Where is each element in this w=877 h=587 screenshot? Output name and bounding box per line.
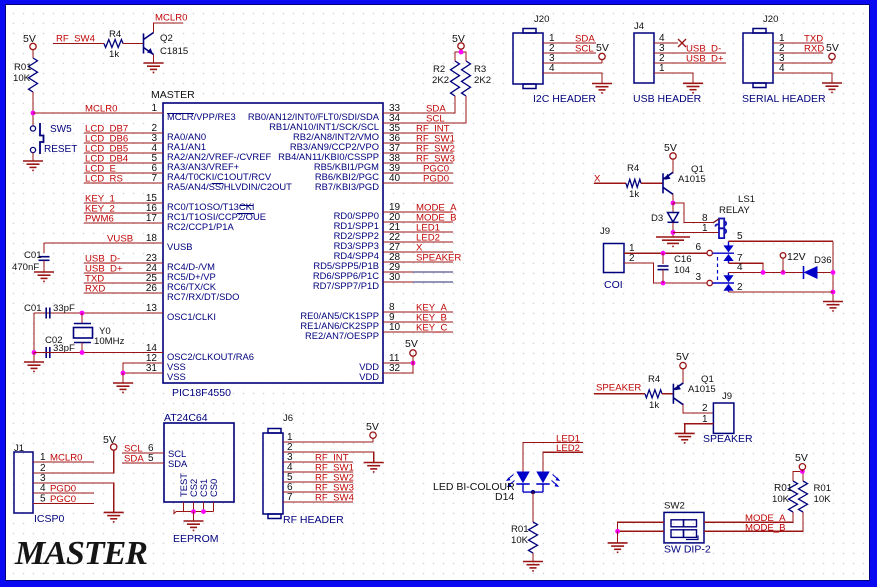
svg-text:MCLR0: MCLR0 [85, 104, 118, 115]
ground RF header [364, 463, 384, 472]
resistor R01 10K (MODE_B) [799, 481, 808, 512]
wire R4 to Q1 base [641, 182, 663, 184]
wire net RF_SW2 (J6 pin5) [283, 481, 353, 483]
svg-text:J1: J1 [14, 443, 24, 454]
pin 30 lead [413, 281, 453, 283]
wire net RXD [84, 292, 163, 294]
wire net PWM6 [84, 222, 163, 224]
5V power port (speaker) [680, 362, 686, 368]
svg-text:D3: D3 [651, 213, 663, 224]
wire EEPROM TEST stub [183, 502, 185, 512]
switch SW2 paddle 2 [671, 530, 697, 538]
wire net MODE_B [383, 221, 453, 223]
wire contact 2 to rail [729, 291, 834, 293]
svg-text:EEPROM: EEPROM [173, 533, 219, 545]
svg-text:30: 30 [389, 272, 401, 283]
wire net SCL to R3 [383, 96, 466, 123]
wire 5V to R01 [32, 50, 34, 58]
svg-text:RF_SW4: RF_SW4 [56, 34, 96, 45]
svg-text:SPEAKER: SPEAKER [596, 383, 641, 394]
wire J1 pin1 MCLR0 [33, 461, 94, 463]
wire 5V stem (MODE) [801, 470, 803, 472]
wire Q2 emitter to ground [153, 55, 155, 64]
svg-text:J20: J20 [763, 14, 778, 25]
svg-text:RA5/AN4/SS/HLVDIN/C2OUT: RA5/AN4/SS/HLVDIN/C2OUT [167, 181, 292, 192]
junction OSC1/crystal [80, 311, 85, 316]
junction rail/2 [831, 290, 836, 295]
svg-text:7: 7 [151, 173, 157, 184]
ground SW5 [23, 161, 43, 170]
svg-text:2K2: 2K2 [474, 75, 491, 86]
wire net KEY_C [383, 331, 453, 333]
wire net LCD_E [84, 172, 163, 174]
junction rail/4 [831, 270, 836, 275]
5V power port (MODE) [799, 464, 805, 470]
wire net RF_INT [383, 132, 453, 134]
svg-text:2: 2 [737, 282, 743, 293]
switch SW2 paddle 1 [671, 520, 697, 527]
wire net LED2 [383, 241, 453, 243]
ground EEPROM [184, 521, 204, 530]
wire D3 to ground node [672, 222, 674, 237]
wire net RF_SW1 [383, 142, 453, 144]
svg-text:104: 104 [674, 265, 691, 276]
svg-text:D36: D36 [814, 255, 832, 266]
svg-text:1: 1 [702, 223, 708, 234]
wire MCLR0 node to pin 1 [33, 112, 163, 114]
wire serial pin4 to ground [773, 73, 832, 83]
led D14 emission arrows right [552, 475, 559, 486]
svg-text:2: 2 [702, 403, 708, 414]
wire 12V stem [782, 258, 784, 272]
resistor R01 10K (pull-up) [29, 58, 38, 92]
wire net LCD_DB5 [84, 152, 163, 154]
resistor R4 1k (Q2 base) [104, 40, 123, 48]
svg-text:MASTER: MASTER [151, 89, 195, 101]
connector J1 ICSP0 body [14, 452, 33, 513]
wire C16 top lead [662, 253, 664, 264]
svg-text:5V: 5V [366, 421, 379, 433]
svg-text:1k: 1k [109, 49, 119, 60]
svg-text:5: 5 [40, 494, 46, 505]
resistor R01 10K (MODE_A) [789, 481, 798, 512]
junction SW2 ground [615, 529, 620, 534]
relay contact arm 3-to-2 [728, 291, 730, 292]
junction VDD [411, 361, 416, 366]
wire EEPROM CS2 stub [193, 502, 195, 512]
svg-text:1: 1 [702, 414, 708, 425]
svg-text:33pF: 33pF [53, 303, 75, 314]
wire J20 pin3 to 5V [543, 62, 602, 64]
wire VDD pin32 [383, 356, 413, 373]
wire net MODE_B [704, 512, 803, 531]
wire net VUSB [44, 242, 163, 244]
svg-text:1: 1 [659, 63, 665, 74]
svg-text:1: 1 [40, 452, 46, 463]
svg-text:SPEAKER: SPEAKER [703, 433, 753, 445]
ic AT24C64 EEPROM body [164, 423, 234, 502]
svg-text:PGD0: PGD0 [423, 174, 449, 185]
svg-text:RXD: RXD [804, 44, 824, 55]
wire J6 pin2 to ground [283, 452, 374, 463]
junction MCLR0 node [31, 111, 36, 116]
pin 29 lead [413, 271, 453, 273]
ground relay driver [656, 237, 690, 246]
wire J20 pin2 SCL [543, 52, 596, 54]
5V power port (RF header) [370, 432, 376, 438]
svg-text:17: 17 [146, 213, 158, 224]
svg-text:KEY_C: KEY_C [416, 323, 448, 334]
svg-text:RF HEADER: RF HEADER [283, 514, 344, 526]
svg-text:SDA: SDA [168, 458, 188, 469]
wire R01 to ground [532, 553, 534, 562]
capacitor C01 470nF [39, 257, 50, 261]
wire RF_SW4 to R4 [53, 43, 104, 45]
svg-text:R01: R01 [511, 524, 529, 535]
wire J1 pin4 PGD0 [33, 492, 94, 494]
wire J9 pin2 to contact 3 [624, 263, 707, 283]
junction EEPROM gnd 1 [191, 509, 196, 514]
wire VSS pin12 [123, 363, 163, 373]
ground Q2 emitter [144, 63, 164, 72]
wire X to R4 [594, 182, 626, 184]
wire J4 pin4 [654, 42, 678, 44]
relay contact arm 6-to-7 [728, 261, 730, 263]
wire D14 cathodes join [523, 484, 543, 492]
5V power port (pull-ups) [458, 43, 464, 49]
5V power port (Q1 relay) [670, 153, 676, 159]
svg-text:COI: COI [604, 279, 623, 291]
svg-text:USB HEADER: USB HEADER [633, 93, 702, 105]
wire EEPROM select bus [176, 511, 214, 513]
svg-text:32: 32 [389, 363, 401, 374]
wire R4 to Q2 base [123, 43, 143, 45]
svg-text:RD7/SPP7/P1D: RD7/SPP7/P1D [313, 280, 379, 291]
svg-text:LCD_RS: LCD_RS [85, 174, 123, 185]
junction 5V MODE [800, 469, 805, 474]
ground LED [523, 562, 543, 571]
svg-text:3: 3 [695, 272, 701, 283]
wire Q1 emitter to 5V [682, 369, 684, 383]
wire J4 pin2 USB_D+ [654, 62, 726, 64]
svg-text:SW2: SW2 [664, 501, 685, 512]
ground VSS [113, 383, 133, 392]
junction C16 top [661, 251, 666, 256]
ground serial header [822, 83, 842, 92]
svg-text:PWM6: PWM6 [85, 214, 114, 225]
connector J4 USB header [634, 33, 654, 83]
svg-text:10K: 10K [511, 535, 529, 546]
svg-text:12V: 12V [787, 251, 806, 263]
wire Q2 collector to MCLR0 [154, 23, 184, 33]
svg-text:5V: 5V [795, 452, 808, 464]
wire rail to ground [33, 353, 35, 363]
wire R01 to SW5/pin1 node [32, 92, 34, 126]
svg-text:R01: R01 [14, 62, 32, 73]
5V power port (VDD) [410, 350, 416, 356]
wire net LCD_RS [84, 182, 163, 184]
resistor R4 1k (speaker) [645, 390, 662, 398]
relay contact arm 3-to-4 [712, 272, 734, 283]
junction C02/ground rail [32, 350, 37, 355]
switch SW5 RESET [30, 126, 35, 131]
wire SPEAKER to R4 [594, 393, 645, 395]
wire VSS to ground [122, 373, 124, 383]
svg-text:4: 4 [779, 63, 785, 74]
wire SW2 left bottom [618, 530, 664, 532]
svg-text:PGC0: PGC0 [50, 494, 76, 505]
svg-text:10K: 10K [772, 494, 790, 505]
junction OSC2/crystal [80, 350, 85, 355]
svg-text:R4: R4 [648, 374, 661, 385]
svg-text:J9: J9 [722, 391, 732, 402]
svg-text:VDD: VDD [359, 371, 379, 382]
wire 5V stem (I2C) [601, 60, 603, 63]
svg-text:R3: R3 [474, 64, 486, 75]
svg-text:MCLR0: MCLR0 [155, 13, 188, 24]
svg-text:RXD: RXD [85, 284, 105, 295]
svg-text:J6: J6 [283, 413, 293, 424]
wire ground node to coil pin1 [673, 231, 719, 233]
led D14 emission arrows left [508, 475, 515, 486]
wire EEPROM SDA [122, 462, 164, 464]
svg-text:RC7/RX/DT/SDO: RC7/RX/DT/SDO [167, 291, 239, 302]
svg-text:SCL: SCL [575, 44, 594, 55]
wire Q1 collector down [672, 194, 674, 203]
wire C16 bottom lead [662, 270, 664, 283]
junction 7/4 [761, 270, 766, 275]
wire J9 pin1 to ground [685, 424, 714, 434]
wire serial pin1 TXD [773, 42, 823, 44]
wire SW2 left top [618, 522, 664, 531]
crystal Y0 10MHz [74, 324, 93, 343]
wire EEPROM CS0 stub [213, 502, 215, 512]
wire EEPROM bus to ground [193, 512, 195, 521]
svg-text:R4: R4 [109, 29, 122, 40]
wire net RF_SW4 (J6 pin7) [283, 501, 353, 503]
svg-text:LED2: LED2 [556, 443, 580, 454]
wire J4 pin3 USB_D- [654, 52, 726, 54]
wire net USB_D- [84, 262, 163, 264]
svg-text:RB7/KBI3/PGD: RB7/KBI3/PGD [315, 181, 379, 192]
svg-text:VUSB: VUSB [107, 234, 133, 245]
wire VSS pin31 [123, 372, 163, 374]
ground USB header [683, 83, 703, 92]
wire EEPROM CS1 stub [203, 502, 205, 512]
svg-text:PIC18F4550: PIC18F4550 [172, 387, 231, 399]
wire collector to coil pin8 [673, 203, 714, 223]
svg-text:C01: C01 [24, 250, 42, 261]
5V power port (I2C) [599, 53, 605, 59]
svg-text:18: 18 [146, 233, 158, 244]
svg-text:I2C HEADER: I2C HEADER [533, 93, 596, 105]
wire contact 7 down [729, 263, 764, 272]
wire net MODE_A [383, 211, 453, 213]
svg-text:5V: 5V [664, 142, 677, 154]
svg-text:AT24C64: AT24C64 [164, 412, 208, 424]
connector J20 serial header [743, 29, 773, 88]
wire OSC2 pin14 [34, 352, 163, 354]
relay mechanical link (dashed) [717, 257, 719, 280]
svg-text:J4: J4 [634, 21, 645, 32]
wire Q1 collector to J9 pin2 [683, 405, 713, 414]
junction EEPROM gnd 2 [201, 509, 206, 514]
no-connect X on J4 pin 4 [678, 39, 686, 47]
svg-text:A1015: A1015 [678, 174, 706, 185]
wire J20 pin4 to ground [543, 73, 602, 84]
svg-text:2: 2 [629, 253, 635, 264]
connector J9 SPEAKER [713, 403, 734, 433]
wire pull-up tops [455, 52, 466, 61]
wire cap rail left [33, 313, 35, 353]
svg-text:5: 5 [148, 453, 154, 464]
wire OSC1 pin13 [34, 312, 163, 314]
wire net KEY_2 [84, 212, 163, 214]
wire VUSB to C01 [43, 243, 45, 253]
svg-text:D14: D14 [495, 491, 514, 503]
wire contact 5 to rail [729, 240, 834, 242]
relay contact common 3 terminal [707, 280, 712, 285]
junction pull-up 5V [459, 50, 464, 55]
wire pull-up tops (MODE) [793, 471, 803, 481]
relay contact arm 6-to-5 [712, 241, 734, 253]
wire net TXD [84, 282, 163, 284]
wire serial pin2 RXD [773, 52, 823, 54]
resistor R01 10K (LED) [529, 522, 538, 553]
junction VSS [121, 371, 126, 376]
svg-text:RE2/AN7/OESPP: RE2/AN7/OESPP [305, 330, 379, 341]
svg-text:LS1: LS1 [738, 194, 755, 205]
svg-text:26: 26 [146, 283, 158, 294]
wire D36 to rail [818, 271, 834, 273]
wire J1 pin2 to 5V [33, 450, 114, 473]
svg-text:CS0: CS0 [208, 479, 219, 497]
wire right rail [832, 241, 834, 301]
svg-text:4: 4 [549, 63, 555, 74]
svg-text:7: 7 [287, 492, 293, 503]
junction D3/coil [671, 230, 676, 235]
junction Q1 collector [671, 201, 676, 206]
wire net LCD_DB4 [84, 162, 163, 164]
led D14 element B [536, 472, 549, 484]
wire net SPEAKER [383, 261, 453, 263]
svg-text:MASTER: MASTER [14, 535, 147, 572]
svg-text:J9: J9 [600, 226, 610, 237]
diode D3 [668, 213, 679, 223]
svg-text:1k: 1k [629, 189, 639, 200]
wire hook coil pin 8 [713, 219, 719, 223]
svg-text:5V: 5V [103, 434, 116, 446]
svg-text:R01: R01 [814, 483, 832, 494]
svg-text:31: 31 [146, 363, 158, 374]
wire net RF_INT (J6 pin3) [283, 461, 353, 463]
wire net PGC0 [383, 172, 453, 174]
wire net KEY_A [383, 311, 453, 313]
wire D14 to R01 [532, 492, 534, 522]
5V power port [30, 43, 36, 49]
svg-text:OSC1/CLKI: OSC1/CLKI [167, 311, 216, 322]
svg-text:RC2/CCP1/P1A: RC2/CCP1/P1A [167, 221, 234, 232]
wire serial pin3 to 5V [773, 62, 832, 64]
wire pin29 stub [383, 271, 413, 273]
svg-text:USB_D+: USB_D+ [686, 54, 724, 65]
wire LED2 anode [543, 452, 583, 471]
capacitor C02 33pF [46, 347, 50, 358]
transistor Q1 A1015 (speaker driver) [673, 383, 683, 405]
wire net RF_SW3 (J6 pin6) [283, 491, 353, 493]
wire net MODE_A [704, 512, 793, 522]
ground relay rail [823, 302, 843, 311]
wire collector to D3 [672, 203, 674, 212]
svg-text:4: 4 [40, 483, 46, 494]
wire net RF_SW1 (J6 pin4) [283, 471, 353, 473]
svg-text:SPEAKER: SPEAKER [416, 253, 461, 264]
svg-text:C1815: C1815 [160, 46, 188, 57]
resistor R4 1k (relay) [626, 179, 641, 187]
svg-text:MCLR/VPP/RE3: MCLR/VPP/RE3 [167, 111, 236, 122]
connector J6 RF header [263, 429, 283, 519]
connector J20 I2C header [513, 29, 543, 89]
ic U_MASTER PIC18F4550 body [163, 103, 383, 383]
svg-text:Q2: Q2 [160, 33, 173, 44]
svg-text:RELAY: RELAY [719, 205, 750, 216]
wire crystal bottom lead [81, 343, 83, 353]
wire crystal top lead [81, 313, 83, 324]
svg-text:A1015: A1015 [688, 384, 716, 395]
svg-text:MODE_B: MODE_B [745, 522, 786, 533]
transistor Q2 C1815 (NPN) [144, 33, 154, 55]
svg-text:C01: C01 [24, 303, 42, 314]
wire SW5 to ground [32, 153, 34, 161]
ground I2C header [592, 84, 612, 93]
wire C01 to ground [43, 260, 45, 272]
12V power port [780, 253, 786, 259]
svg-text:SW DIP-2: SW DIP-2 [664, 544, 711, 556]
wire EEPROM SCL [122, 452, 164, 454]
svg-text:R4: R4 [627, 163, 640, 174]
5V power port (ICSP) [111, 444, 117, 450]
junction 12V/4 [781, 270, 786, 275]
diode D36 [804, 266, 818, 279]
svg-text:10: 10 [389, 322, 401, 333]
svg-text:VUSB: VUSB [167, 241, 193, 252]
ground ICSP [104, 512, 124, 521]
svg-text:40: 40 [389, 173, 401, 184]
wire 5V stem (serial) [831, 60, 833, 63]
wire J9 pin1 to contact 6 [624, 252, 707, 254]
led D14 element A [516, 472, 529, 484]
wire net LCD_DB6 [84, 142, 163, 144]
svg-text:SW5: SW5 [50, 124, 72, 135]
switch SW2 SW DIP-2 body [664, 512, 704, 543]
svg-text:10MHz: 10MHz [94, 336, 125, 347]
ground crystal caps [24, 362, 44, 371]
wire net LED1 [383, 231, 453, 233]
wire Q1 emitter to 5V [672, 159, 674, 172]
svg-text:2K2: 2K2 [432, 75, 449, 86]
wire LED1 anode [523, 443, 583, 472]
svg-text:ICSP0: ICSP0 [34, 513, 65, 525]
ground speaker [675, 433, 695, 442]
svg-text:1: 1 [151, 103, 157, 114]
svg-text:PGD0: PGD0 [50, 484, 76, 495]
svg-text:5: 5 [737, 231, 743, 242]
svg-text:J20: J20 [534, 14, 549, 25]
wire 5V stem [460, 49, 462, 52]
svg-text:10K: 10K [814, 494, 832, 505]
svg-text:VSS: VSS [167, 371, 186, 382]
ground C01 [34, 272, 54, 281]
